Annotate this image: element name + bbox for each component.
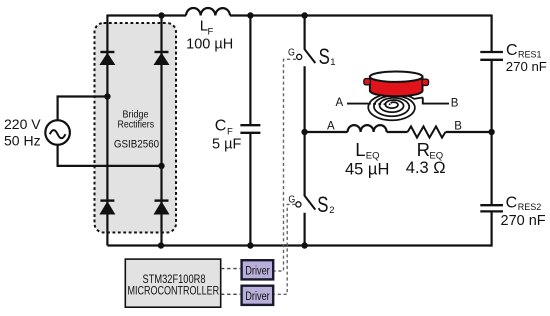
svg-text:50 Hz: 50 Hz (4, 133, 41, 149)
inductor LEQ (348, 125, 387, 132)
svg-text:Rectifiers: Rectifiers (118, 119, 155, 131)
svg-text:A: A (327, 121, 335, 133)
svg-text:Driver: Driver (245, 291, 270, 303)
wire: AC source top to bridge (58, 97, 108, 122)
label CRES2 (506, 195, 542, 213)
pot left handle (364, 79, 371, 85)
svg-text:B: B (454, 121, 462, 133)
node: tank right junction (488, 129, 494, 135)
label S2 (317, 192, 334, 217)
node: bottom rail / switch branch (301, 242, 307, 248)
microcontroller U1 box (125, 259, 220, 307)
switch S2 (296, 132, 316, 247)
diode D4 (bridge, bottom right) (154, 201, 170, 215)
svg-text:100 µH: 100 µH (186, 37, 233, 53)
svg-text:L: L (355, 139, 365, 160)
AC source V1 (45, 120, 70, 145)
wire: right rail with capacitor gaps (491, 15, 493, 247)
resistor REQ (408, 126, 446, 137)
wire: coil terminal B lead (423, 98, 449, 104)
node: AC bottom junction (158, 163, 164, 169)
svg-text:C: C (506, 195, 518, 212)
control line: MCU to driver 2 (dashed) (221, 293, 240, 295)
svg-text:270 nF: 270 nF (501, 213, 546, 229)
wire: coil terminal A lead (347, 103, 368, 105)
node: top rail / CF (247, 12, 253, 18)
svg-text:F: F (208, 26, 214, 37)
label CRES1 (506, 42, 542, 60)
node: bottom rail / bridge right leg (158, 242, 164, 248)
svg-text:G: G (288, 47, 295, 59)
node: bottom rail / CF (247, 242, 253, 248)
svg-text:Driver: Driver (245, 265, 270, 277)
pot right handle (422, 79, 429, 85)
wire: bridge right leg (160, 15, 162, 246)
node: AC top junction (104, 93, 110, 99)
svg-text:2: 2 (329, 205, 334, 216)
svg-text:4.3 Ω: 4.3 Ω (406, 159, 446, 177)
svg-text:C: C (215, 118, 227, 135)
capacitor CRES2 (480, 205, 503, 211)
svg-text:B: B (451, 98, 459, 110)
diode D3 (bridge, bottom left) (99, 201, 115, 215)
svg-text:S: S (317, 192, 328, 217)
wire: coil hidden lead (dashed into spiral center) (368, 103, 391, 106)
node: top rail / switch branch (301, 12, 307, 18)
driver 2 box (242, 286, 274, 305)
diode D2 (bridge, top right) (154, 52, 170, 65)
capacitor CF (240, 15, 260, 247)
diode D1 (bridge, top left) (99, 52, 115, 65)
label STM32F100R8 MICROCONTROLLER (128, 272, 220, 298)
svg-text:A: A (336, 97, 344, 109)
svg-text:RES2: RES2 (518, 202, 542, 212)
inductor LF (186, 8, 230, 16)
wire: AC source bottom to bridge (58, 144, 162, 166)
svg-text:5 µF: 5 µF (212, 136, 241, 152)
svg-text:R: R (417, 139, 430, 160)
label LF (200, 18, 214, 38)
wire: bridge left leg (106, 15, 108, 246)
switch S1 (297, 15, 316, 133)
driver 1 box (242, 260, 274, 279)
svg-text:C: C (506, 42, 518, 59)
svg-text:S: S (319, 44, 330, 69)
control line: driver 2 to S2 gate (dashed) (274, 204, 295, 294)
pot body (red band) (370, 77, 423, 96)
label CF (215, 118, 233, 138)
capacitor CRES1 (480, 52, 503, 60)
label S1 (319, 44, 336, 69)
node: top rail / bridge right leg (158, 12, 164, 18)
label 220 V 50 Hz (4, 116, 41, 149)
bridge rectifier module box (95, 23, 177, 233)
wire: top rail (107, 14, 491, 16)
svg-text:1: 1 (330, 57, 335, 68)
control line: driver 1 to S1 gate (dashed) (274, 59, 296, 271)
label REQ (417, 139, 444, 162)
label Bridge Rectifiers (118, 109, 155, 131)
node: tank left junction (301, 129, 307, 135)
wire: bottom rail (107, 244, 491, 246)
svg-text:MICROCONTROLLER: MICROCONTROLLER (128, 284, 220, 298)
svg-text:GSIB2560: GSIB2560 (114, 138, 159, 150)
wire: resonant tank rail (305, 131, 492, 133)
svg-text:270 nF: 270 nF (506, 59, 547, 74)
pot top rim ellipse (370, 72, 423, 82)
svg-text:RES1: RES1 (518, 49, 542, 59)
svg-text:45 µH: 45 µH (345, 161, 389, 179)
svg-text:220 V: 220 V (4, 116, 41, 132)
label LEQ (355, 139, 379, 162)
control line: MCU to driver 1 (dashed) (221, 268, 240, 270)
induction coil spiral (368, 94, 423, 121)
